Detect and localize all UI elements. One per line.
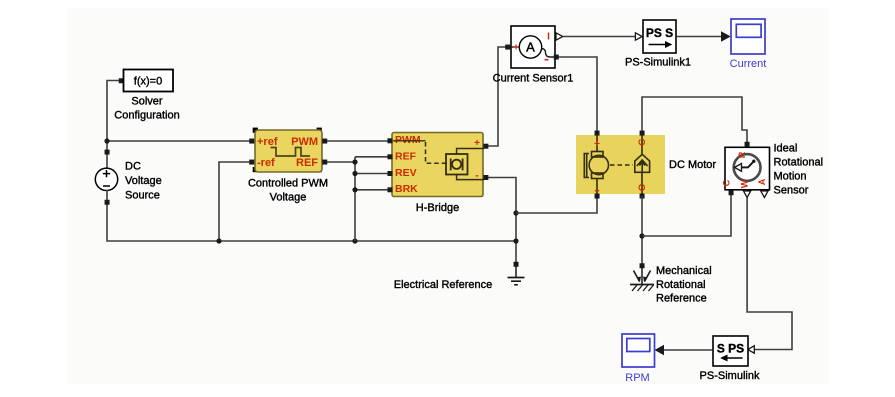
svg-text:RPM: RPM [625, 372, 649, 384]
wire PS-Simulink1 to Current scope [677, 36, 723, 38]
junction BRK branch [352, 187, 357, 192]
arrowhead into RPM scope [655, 345, 665, 355]
port PS-Simulink input triangle [748, 346, 755, 353]
svg-text:H-Bridge: H-Bridge [416, 202, 459, 214]
svg-text:Current: Current [730, 58, 767, 70]
wire hbridge + to current sensor [488, 47, 507, 146]
svg-text:Ideal: Ideal [774, 143, 798, 155]
svg-text:BRK: BRK [395, 183, 418, 195]
svg-text:R: R [737, 151, 747, 158]
junction REF branch [352, 159, 357, 164]
junction mech bus [639, 233, 644, 238]
svg-text:Solver: Solver [131, 96, 163, 108]
port sensor R [745, 142, 750, 147]
svg-text:Rotational: Rotational [656, 279, 706, 291]
PS-Simulink block [700, 336, 760, 382]
svg-text:Electrical Reference: Electrical Reference [394, 279, 492, 291]
port pwm -ref [249, 160, 254, 165]
port dc motor + [595, 131, 600, 136]
svg-text:PWM: PWM [291, 136, 318, 148]
electrical reference ground [394, 262, 525, 291]
svg-text:W: W [740, 179, 750, 188]
controlled PWM voltage block [248, 128, 328, 204]
wire REF out [327, 161, 355, 163]
svg-text:DC Motor: DC Motor [669, 159, 716, 171]
current sensor block [493, 26, 574, 85]
wire sensor W to PS-Simulink [747, 198, 792, 350]
wire to DC motor - terminal [516, 196, 597, 213]
port dc motor O [640, 194, 645, 199]
arrowhead into Current scope [721, 31, 731, 41]
port hbridge BRK [387, 187, 392, 192]
port PS-Simulink1 input triangle [635, 33, 642, 40]
port pwm REF [322, 160, 327, 165]
wire REF vertical drop [354, 157, 356, 241]
port solver config [119, 78, 124, 83]
svg-text:DC: DC [125, 161, 141, 173]
svg-text:PS-Simulink: PS-Simulink [700, 370, 760, 382]
port pwm +ref [249, 139, 254, 144]
wire hbridge - to ground vertical [488, 178, 516, 265]
port sensor A triangle [761, 191, 768, 198]
svg-text:+: + [513, 43, 519, 54]
svg-text:C: C [722, 179, 732, 186]
junction REV branch [352, 171, 357, 176]
port hbridge REV [387, 171, 392, 176]
svg-text:A: A [757, 178, 767, 185]
svg-text:O: O [637, 184, 648, 191]
svg-text:PS-Simulink1: PS-Simulink1 [625, 57, 691, 69]
svg-text:I: I [547, 32, 550, 43]
svg-text:REF: REF [296, 157, 318, 169]
svg-text:+: + [594, 139, 600, 150]
wire current sensor - to DC motor + [559, 57, 598, 133]
junction bottom bus at REF drop [352, 238, 357, 243]
svg-text:A: A [526, 40, 535, 55]
svg-text:Motion: Motion [774, 171, 807, 183]
wire branch to REV in [355, 173, 388, 175]
mechanical rotational reference [630, 263, 712, 304]
wire DC motor O to mech reference [641, 196, 643, 265]
Current scope block [730, 19, 767, 70]
port vsource - [105, 200, 110, 205]
svg-text:PS S: PS S [646, 26, 673, 40]
svg-text:S PS: S PS [717, 342, 744, 356]
port hbridge - [483, 175, 488, 180]
port current sensor + [505, 45, 510, 50]
svg-text:Voltage: Voltage [125, 175, 162, 187]
ideal rotational motion sensor block [722, 143, 824, 197]
node A junction [104, 138, 109, 143]
svg-text:Current Sensor1: Current Sensor1 [493, 73, 574, 85]
wire sensor C to mech bus [642, 193, 731, 236]
port hbridge + [483, 144, 488, 149]
wire vsource - to bottom bus [107, 190, 516, 241]
svg-text:-: - [475, 171, 478, 182]
svg-text:Sensor: Sensor [774, 185, 809, 197]
svg-text:REF: REF [395, 150, 417, 162]
port hbridge REF [387, 154, 392, 159]
port vsource + [105, 150, 110, 155]
wire branch to REF in [355, 156, 388, 158]
junction bottom bus at -ref [216, 238, 221, 243]
svg-text:Rotational: Rotational [774, 157, 824, 169]
svg-text:+: + [474, 138, 480, 149]
port dc motor C [640, 131, 645, 136]
svg-text:Voltage: Voltage [270, 192, 307, 204]
svg-text:Mechanical: Mechanical [656, 265, 712, 277]
wire current sensor I to PS-Simulink1 [563, 36, 635, 38]
port sensor C [729, 190, 734, 195]
wire PS-Simulink to RPM scope [663, 349, 713, 351]
port dc motor - [595, 194, 600, 199]
port hbridge PWM [387, 138, 392, 143]
svg-text:PWM: PWM [395, 134, 421, 146]
PS-Simulink1 block [625, 20, 691, 69]
DC motor block [576, 135, 716, 194]
svg-text:REV: REV [395, 167, 417, 179]
svg-text:Reference: Reference [656, 293, 707, 305]
svg-text:Controlled PWM: Controlled PWM [248, 178, 328, 190]
RPM scope block [622, 334, 655, 384]
wire PWM to H-bridge [327, 140, 388, 142]
solver configuration block U1 [114, 70, 179, 122]
svg-text:+ref: +ref [257, 136, 278, 148]
DC voltage source V1 [95, 161, 161, 202]
wire DC motor C to sensor R [642, 97, 747, 143]
port current sensor - [554, 55, 559, 60]
port sensor W triangle [744, 191, 751, 198]
svg-text:-ref: -ref [257, 157, 275, 169]
svg-text:Configuration: Configuration [114, 110, 179, 122]
H-bridge block [392, 133, 484, 215]
svg-text:Source: Source [125, 190, 160, 202]
svg-text:C: C [637, 139, 648, 146]
port pwm PWM [322, 139, 327, 144]
wire branch to BRK in [355, 189, 388, 191]
wire -ref drop [219, 162, 254, 241]
junction ground bus [513, 238, 518, 243]
svg-text:f(x)=0: f(x)=0 [134, 76, 162, 88]
wire top bus node A to +ref [107, 140, 250, 142]
wire solver-config to node A [107, 81, 124, 172]
junction ground top [513, 210, 518, 215]
port current sensor I output triangle [556, 33, 563, 40]
